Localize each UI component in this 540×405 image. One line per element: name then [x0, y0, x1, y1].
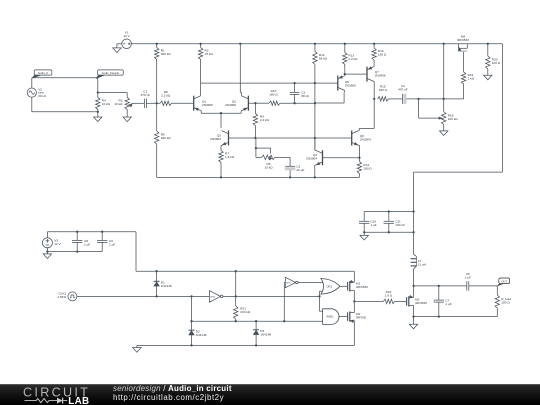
- svg-text:1 kΩ: 1 kΩ: [468, 77, 475, 81]
- svg-text:470 nF: 470 nF: [141, 93, 151, 97]
- svg-text:390 kΩ: 390 kΩ: [161, 52, 172, 56]
- node VAS out: [373, 98, 375, 100]
- mosfet M1 IRF9530: [340, 285, 348, 287]
- svg-text:4 MHz: 4 MHz: [57, 295, 66, 299]
- wire Q7 collector down: [373, 81, 375, 83]
- node rail-R16: [373, 43, 375, 45]
- wire V3 bottom: [46, 248, 48, 254]
- transistor Q5 2N3906: [337, 76, 339, 91]
- node bias vertical: [443, 98, 445, 100]
- resistor R14 180: [357, 161, 361, 173]
- mosfet M4 IRF9530: [457, 44, 459, 49]
- wire split down to AND: [319, 296, 321, 311]
- wire M3 drain up: [413, 286, 415, 298]
- node R5 tap: [255, 147, 257, 149]
- node wiper riser: [417, 98, 419, 100]
- svg-text:AND1: AND1: [326, 315, 334, 319]
- svg-text:2N3904: 2N3904: [306, 157, 317, 161]
- svg-text:http://circuitlab.com/c2jbt2y: http://circuitlab.com/c2jbt2y: [113, 393, 224, 402]
- svg-text:22 µF: 22 µF: [296, 168, 304, 172]
- wire top power rail: [131, 43, 502, 45]
- svg-text:10 kΩ: 10 kΩ: [205, 52, 214, 56]
- wire R21-AND run: [192, 320, 323, 322]
- flag OUT: [499, 278, 510, 284]
- transistor Q1 2N3906: [193, 96, 195, 111]
- node tail: [220, 112, 222, 114]
- ground under R3: [123, 117, 131, 122]
- node Q2 base: [254, 102, 256, 104]
- svg-text:1 µF: 1 µF: [370, 223, 376, 227]
- resistor R13 2.2k: [343, 52, 347, 64]
- resistor R10 180: [269, 101, 280, 105]
- wire Q2 emitter: [240, 110, 242, 112]
- wire V1 to ground: [117, 43, 122, 45]
- resistor R1 390k: [155, 47, 159, 59]
- wire Q5 collector down: [344, 91, 346, 93]
- svg-text:390 kΩ: 390 kΩ: [161, 136, 172, 140]
- wire R_load bottom: [496, 308, 498, 317]
- node D1 top: [155, 270, 157, 272]
- clock source CLK1 4MHz: [68, 292, 77, 301]
- wire C4 to bias node: [406, 98, 463, 100]
- node Q7 base: [344, 73, 346, 75]
- node C6 top: [101, 231, 103, 233]
- node rail-bias: [443, 43, 445, 45]
- svg-text:100 nF: 100 nF: [395, 223, 405, 227]
- resistor R4 10k: [96, 97, 100, 109]
- node Q3 base run: [314, 137, 316, 139]
- wire Audio_Sample down: [97, 78, 99, 93]
- node C3 bottom: [293, 102, 295, 104]
- node rail-Q2: [239, 43, 241, 45]
- node Q4 emitter rail: [314, 176, 316, 178]
- resistor R16 180: [372, 48, 376, 60]
- svg-text:100 Ω: 100 Ω: [501, 301, 510, 305]
- wire R3 wiper to C1: [132, 102, 145, 104]
- node R7 rail: [220, 176, 222, 178]
- wire R22 right: [394, 300, 396, 302]
- wire split up to OR: [319, 291, 321, 296]
- wire emitter rail: [201, 112, 241, 114]
- svg-text:11 uH: 11 uH: [418, 262, 426, 266]
- svg-text:1.8 Ω: 1.8 Ω: [385, 294, 393, 298]
- wire R5 wiper loop: [256, 147, 271, 149]
- wire R10 to crossing: [280, 102, 315, 104]
- wire R18 bottom: [443, 125, 445, 131]
- wire R1 to R6: [156, 59, 158, 131]
- wire R3 top lead: [126, 93, 128, 98]
- inverter INV2: [209, 291, 220, 303]
- wire R19 bottom: [463, 84, 465, 99]
- node rail-R2: [199, 43, 201, 45]
- node C7 top: [438, 285, 440, 287]
- wire R12 node down to Q4: [314, 83, 316, 150]
- wire rail right drop: [501, 44, 503, 172]
- wire supply riser: [135, 232, 137, 272]
- svg-text:Audio_Sample: Audio_Sample: [102, 71, 120, 75]
- wire INV1 out to OR: [298, 282, 323, 284]
- wire Q7 emitter up to R16: [373, 66, 375, 68]
- wire L1 bottom: [413, 269, 415, 286]
- svg-text:1 µF: 1 µF: [445, 302, 451, 306]
- wire R_load top: [496, 286, 498, 295]
- wire R9 top lead: [254, 103, 256, 113]
- resistor R7 1.8k: [219, 150, 223, 162]
- node C1-R1R6: [156, 102, 158, 104]
- wire R4 bottom: [97, 109, 99, 117]
- ground under R18: [440, 131, 448, 136]
- svg-text:2.2 kΩ: 2.2 kΩ: [348, 57, 358, 61]
- svg-text:IRF9530: IRF9530: [415, 301, 427, 305]
- capacitor C1 470nF: [143, 99, 145, 108]
- node output L1: [412, 285, 414, 287]
- wire R6 bottom to rail: [156, 144, 158, 177]
- svg-text:IRF9530: IRF9530: [457, 38, 469, 42]
- ground under R20: [484, 75, 492, 80]
- wire R8 to Q1 base: [172, 102, 194, 104]
- svg-text:1 µF: 1 µF: [109, 242, 115, 246]
- resistor R8 2.2k: [160, 101, 172, 105]
- svg-text:2N3906: 2N3906: [375, 74, 386, 78]
- wire Q3 collector: [220, 113, 222, 127]
- wire Q4 emitter: [314, 164, 317, 166]
- wire Q7 base run: [345, 73, 367, 75]
- wire R2 top lead: [200, 44, 202, 48]
- wire right horizontal: [414, 171, 503, 173]
- wire Q2 collector from rail: [239, 44, 241, 93]
- node INV2 split: [318, 295, 320, 297]
- transistor Q7 2N3906: [366, 67, 368, 82]
- resistor R2 10k: [198, 47, 202, 59]
- svg-text:1N4148: 1N4148: [196, 333, 207, 337]
- node M3 source: [412, 315, 414, 317]
- node D3 gnd: [255, 344, 257, 346]
- wire Q6 emitter to R14: [358, 144, 361, 146]
- svg-text:180 Ω: 180 Ω: [378, 53, 387, 57]
- voltage source V3 12V: [42, 238, 52, 248]
- wire M1 drain up: [353, 271, 355, 282]
- wire R20 top lead: [487, 44, 489, 56]
- wire R7 bottom: [220, 162, 222, 177]
- wire long vertical to output stage: [413, 172, 415, 254]
- wire logic supply bottom run: [47, 251, 102, 253]
- wire R1 top lead: [156, 44, 158, 48]
- wire gnd stub: [136, 345, 138, 347]
- svg-text:2.2 kΩ: 2.2 kΩ: [260, 118, 270, 122]
- ground under V3: [43, 254, 51, 259]
- potentiometer R5 10k: [269, 156, 272, 160]
- svg-text:1N4148: 1N4148: [260, 333, 271, 337]
- node rail-R13: [344, 43, 346, 45]
- node C8 bottom: [76, 250, 78, 252]
- diode D2 1N4148: [189, 329, 195, 331]
- node driver out: [353, 300, 355, 302]
- svg-text:1.8 kΩ: 1.8 kΩ: [225, 155, 235, 159]
- wire INV2 out run: [223, 295, 320, 297]
- wire Q4 collector: [314, 149, 317, 151]
- resistor R9 2.2k: [253, 114, 257, 126]
- node D3 top: [255, 320, 257, 322]
- resistor R12 68k: [313, 51, 317, 64]
- wire Q3 emitter to R7: [220, 144, 223, 146]
- wire C10 ground stub: [363, 232, 365, 235]
- svg-text:OR1: OR1: [326, 284, 332, 288]
- svg-text:1 µF: 1 µF: [465, 276, 471, 280]
- wire R18 wiper: [419, 117, 439, 119]
- wire Q1 emitter: [200, 110, 203, 112]
- wire R12 top lead: [314, 44, 316, 52]
- mosfet M3 IRF9530: [395, 300, 407, 302]
- wire Audio_In net: [32, 77, 98, 79]
- wire M2 source down: [353, 321, 355, 346]
- wire R9-R5 vertical: [255, 138, 257, 148]
- wire V2 bottom return: [31, 97, 33, 112]
- svg-text:2N3906: 2N3906: [202, 103, 213, 107]
- svg-text:200 kΩ: 200 kΩ: [240, 310, 251, 314]
- wire R14 top stub: [358, 158, 360, 162]
- wire R16 top: [373, 44, 375, 48]
- svg-text:seniordesign / Audio_in circui: seniordesign / Audio_in circuit: [113, 384, 232, 393]
- wire R22 left: [354, 300, 383, 302]
- node V2 return: [97, 111, 99, 113]
- node C3 top: [293, 82, 295, 84]
- wire Q1 collector: [200, 83, 202, 96]
- or gate OR1: [321, 279, 340, 295]
- wire D2 riser: [191, 296, 193, 330]
- node R21 rail: [235, 270, 237, 272]
- wire logic ground rail: [137, 344, 354, 346]
- capacitor C4 470nF polarized: [401, 94, 403, 104]
- capacitor C7 1uF: [438, 286, 440, 300]
- wire output run: [414, 285, 467, 287]
- wire logic rail: [136, 270, 354, 272]
- ground at V1: [113, 48, 121, 53]
- wire logic supply top run: [47, 231, 136, 233]
- node R9 bottom: [254, 137, 256, 139]
- node VAS mid: [314, 102, 316, 104]
- svg-text:10 kΩ: 10 kΩ: [264, 166, 273, 170]
- wire C1 to R8: [146, 102, 160, 104]
- resistor R19 1k: [461, 72, 465, 84]
- node D2-R21 run: [190, 320, 192, 322]
- wire R5 right to C2: [275, 156, 290, 158]
- wire R9 bottom: [254, 126, 256, 138]
- flag Audio_Sample: [98, 70, 124, 75]
- svg-text:100 kΩ: 100 kΩ: [448, 117, 459, 121]
- svg-text:OUT: OUT: [501, 279, 507, 283]
- node C10C11 bottom: [412, 231, 414, 233]
- svg-text:2N3906: 2N3906: [225, 103, 236, 107]
- wire M4 pin down: [463, 52, 465, 72]
- wire C10C11 top run: [364, 211, 413, 213]
- svg-text:IRF9530: IRF9530: [356, 285, 368, 289]
- wire NOT riser: [283, 283, 285, 322]
- transistor Q3 2N3904: [228, 131, 230, 146]
- flag Audio_In: [34, 70, 52, 75]
- wire R15 to C4: [389, 98, 403, 100]
- svg-text:Audio_In: Audio_In: [38, 71, 49, 75]
- ground under C10: [360, 235, 368, 240]
- resistor R15 180: [378, 97, 389, 101]
- wire Q4 base: [323, 157, 360, 159]
- wire amp bottom rail: [157, 176, 360, 178]
- node C10 gnd: [363, 231, 365, 233]
- capacitor C10 1uF: [363, 212, 365, 222]
- svg-text:10 kΩ: 10 kΩ: [114, 102, 123, 106]
- wire C5 to OUT: [469, 285, 498, 287]
- node rail-R20: [487, 43, 489, 45]
- node C8 top: [76, 231, 78, 233]
- node R21 top: [235, 295, 237, 297]
- wire R4 top lead: [97, 93, 99, 98]
- logo resistor-diode glyph: [25, 399, 58, 403]
- svg-text:68 kΩ: 68 kΩ: [319, 57, 328, 61]
- diode D1 1N4148: [156, 271, 158, 281]
- wire Q2 base to node: [248, 102, 255, 104]
- resistor R_load 100: [495, 295, 499, 308]
- wire to Q5 collector corner: [315, 102, 344, 104]
- and gate AND1: [323, 309, 339, 325]
- ground logic: [133, 348, 141, 353]
- node R12 bottom: [314, 82, 316, 84]
- wire R13 bottom: [344, 64, 346, 75]
- node CLK-D2: [190, 295, 192, 297]
- wire output bottom rail: [414, 316, 498, 318]
- node C10C11 top: [412, 210, 414, 212]
- voltage source V2 sine 60Hz: [27, 88, 36, 97]
- node Q4 base node: [358, 157, 360, 159]
- ground under R4: [94, 117, 102, 122]
- svg-text:2N3906: 2N3906: [345, 83, 356, 87]
- transistor Q2 2N3906: [247, 96, 249, 111]
- inverter INV1: [285, 277, 295, 288]
- svg-text:180 Ω: 180 Ω: [379, 88, 388, 92]
- resistor R20 100: [486, 56, 490, 69]
- ground under M3: [409, 324, 417, 329]
- wire divider top: [98, 92, 127, 94]
- inductor L1 11uH: [414, 254, 417, 256]
- wire R20 bottom: [487, 69, 489, 75]
- wire R14 bottom: [358, 173, 360, 177]
- transistor Q6 2N3904: [351, 131, 353, 146]
- wire Q6 collector: [358, 130, 361, 132]
- node V3 gnd: [46, 250, 48, 252]
- wire M3 source down: [413, 305, 415, 324]
- wire bias node down to R18: [443, 99, 445, 112]
- svg-text:IRF530: IRF530: [356, 316, 366, 320]
- svg-text:12 V: 12 V: [54, 242, 61, 246]
- capacitor C3 68pF: [294, 83, 296, 92]
- node D2 gnd: [190, 344, 192, 346]
- wire V3 top: [46, 232, 48, 238]
- capacitor C8 1uF: [76, 232, 78, 241]
- wire R3 bottom: [126, 109, 128, 117]
- svg-text:180 Ω: 180 Ω: [269, 93, 278, 97]
- svg-text:1 µF: 1 µF: [84, 242, 90, 246]
- wire C10C11 bottom run: [364, 231, 413, 233]
- node rail-R1: [156, 43, 158, 45]
- svg-text:68 pF: 68 pF: [301, 94, 309, 98]
- svg-text:LAB: LAB: [68, 396, 89, 405]
- capacitor C11 100nF: [388, 212, 390, 222]
- wire R2 down to corner: [200, 59, 202, 83]
- wire R13 top lead: [344, 44, 346, 53]
- wire M2 drain up: [353, 301, 355, 312]
- svg-text:60 Hz: 60 Hz: [38, 94, 46, 98]
- wire R10 run: [255, 102, 269, 104]
- node C11 top: [388, 210, 390, 212]
- capacitor C5 1uF: [466, 281, 468, 290]
- resistor R22 1.8: [383, 299, 395, 303]
- svg-text:2.2 kΩ: 2.2 kΩ: [161, 94, 171, 98]
- node C11 bottom: [388, 231, 390, 233]
- svg-text:470 nF: 470 nF: [398, 88, 408, 92]
- power source V1 12V: [122, 43, 132, 45]
- node R21 bottom: [235, 320, 237, 322]
- wire M1 source down: [353, 290, 355, 301]
- wire bias rail riser: [443, 44, 445, 99]
- wire R12 bottom: [314, 64, 316, 83]
- node NOT riser: [283, 320, 285, 322]
- node divider top: [97, 91, 99, 93]
- resistor R21 200k: [235, 271, 237, 306]
- node C2 rail: [289, 176, 291, 178]
- wire CLK run: [77, 295, 210, 297]
- node C7 bottom: [438, 315, 440, 317]
- wire VAS top run: [201, 82, 338, 84]
- wire V2 top: [31, 78, 33, 88]
- svg-text:180 Ω: 180 Ω: [363, 167, 372, 171]
- capacitor C2 22uF polarized: [285, 165, 295, 167]
- footer bar: [0, 0, 1, 1]
- capacitor C6 1uF: [101, 232, 103, 241]
- potentiometer R18 100k: [442, 112, 446, 125]
- svg-text:2N3904: 2N3904: [210, 137, 221, 141]
- diode D3 1N4148: [255, 321, 257, 330]
- svg-text:1N4148: 1N4148: [161, 284, 172, 288]
- svg-text:100 Ω: 100 Ω: [492, 61, 501, 65]
- svg-text:12 V: 12 V: [123, 34, 129, 38]
- svg-text:10 kΩ: 10 kΩ: [102, 102, 111, 106]
- mosfet M2 IRF530: [339, 316, 348, 318]
- svg-text:2N3904: 2N3904: [360, 138, 371, 142]
- node rail-R12: [314, 43, 316, 45]
- potentiometer R3 10k: [125, 97, 129, 109]
- node CLK-D1: [155, 295, 157, 297]
- resistor R6 390k: [155, 131, 159, 144]
- transistor Q4 2N3904: [322, 150, 324, 165]
- wire Q3 base run: [229, 137, 352, 139]
